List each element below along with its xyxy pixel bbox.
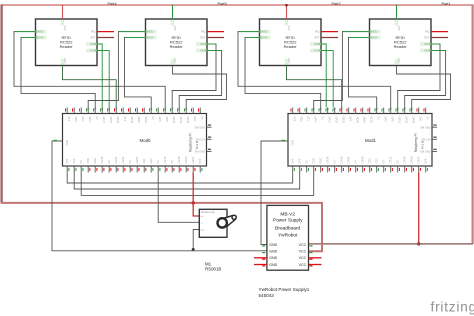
svg-text:MOSI: MOSI <box>130 117 134 124</box>
svg-text:3V3: 3V3 <box>123 117 127 122</box>
svg-text:Mod0: Mod0 <box>140 138 152 143</box>
pin CE0 bottom Mod1 <box>369 166 371 173</box>
power supply MB-V2 YwRobot <box>254 205 322 270</box>
pin MOSI top Mod1 <box>355 108 357 114</box>
svg-text:5V0: 5V0 <box>65 158 69 163</box>
svg-text:5V0: 5V0 <box>198 158 202 163</box>
svg-text:0V: 0V <box>333 160 337 163</box>
svg-text:SM C14: SM C14 <box>196 138 206 142</box>
svg-text:GP16: GP16 <box>403 156 407 163</box>
pin 5V0 top Mod1 <box>418 108 420 114</box>
pin 3V3 top Mod1 <box>292 108 294 114</box>
svg-text:Reader: Reader <box>60 44 74 49</box>
pin SCL top Mod1 <box>306 108 308 114</box>
svg-text:VCC: VCC <box>299 243 307 247</box>
svg-text:GND: GND <box>397 58 400 64</box>
svg-text:0V: 0V <box>305 160 309 163</box>
endpoint markers right half <box>260 31 262 33</box>
pin GP17 top Mod1 <box>327 108 329 114</box>
wire SDA glow A right <box>321 43 326 45</box>
pin GP6 top Mod0 <box>164 108 166 114</box>
wire MOSI reader A left <box>21 38 95 108</box>
pin GP18 bottom Mod1 <box>327 166 329 173</box>
wire MOSI glow A right <box>246 37 260 39</box>
pin GP18 bottom Mod0 <box>101 166 103 173</box>
pin SM right Mod1 <box>432 151 437 153</box>
pin SDA top Mod1 <box>299 108 301 114</box>
pin 0V bottom Mod0 <box>108 166 110 173</box>
svg-text:3V3: 3V3 <box>293 117 297 122</box>
svg-text:RXD: RXD <box>319 158 323 164</box>
svg-text:Breadboard: Breadboard <box>275 225 300 231</box>
svg-text:Reader: Reader <box>170 44 184 49</box>
svg-text:Power Supply: Power Supply <box>273 217 303 223</box>
Raspberry Pi module Mod0 <box>63 114 207 167</box>
svg-text:VCC: VCC <box>299 250 307 254</box>
pin 3V3 top Mod0 <box>122 108 124 114</box>
wire 5V Mod0 to servo sig <box>193 173 199 217</box>
pin 0V bottom Mod1 <box>306 166 308 173</box>
svg-text:GP26: GP26 <box>412 117 416 124</box>
svg-text:SCK: SCK <box>424 49 430 53</box>
wire SDA reader A left <box>97 44 102 108</box>
svg-text:GND: GND <box>269 263 277 267</box>
wire red left rail <box>0 4 2 203</box>
svg-text:GND: GND <box>269 243 277 247</box>
svg-text:0V: 0V <box>107 160 111 163</box>
svg-text:0V: 0V <box>426 117 430 120</box>
svg-text:GP18: GP18 <box>100 156 104 163</box>
svg-text:VCC: VCC <box>299 263 307 267</box>
wire SDA glow B left <box>207 43 216 45</box>
pin GP21 bottom Mod1 <box>418 166 420 173</box>
svg-text:GP18: GP18 <box>326 156 330 163</box>
svg-text:IRQ: IRQ <box>201 30 206 34</box>
svg-text:GP4: GP4 <box>314 117 318 123</box>
pin 5V0 bottom Mod1 <box>425 166 427 173</box>
pin SM right Mod1 <box>432 126 437 128</box>
junction top bus box3 <box>285 4 288 7</box>
pin GP6 top Mod1 <box>390 108 392 114</box>
svg-text:GP5: GP5 <box>384 117 388 123</box>
svg-text:0V: 0V <box>200 117 204 120</box>
wire 3.3V Part1 <box>396 5 398 19</box>
svg-text:GP22: GP22 <box>342 117 346 124</box>
pin GP20 bottom Mod1 <box>411 166 413 173</box>
wire red right rail <box>472 4 474 244</box>
svg-text:Reader: Reader <box>284 44 298 49</box>
pin SCL top Mod0 <box>80 108 82 114</box>
pin 0V top Mod1 <box>320 108 322 114</box>
svg-text:Raspberry Pi: Raspberry Pi <box>414 133 418 152</box>
svg-text:GP27: GP27 <box>335 117 339 124</box>
svg-text:SDA: SDA <box>424 42 430 46</box>
svg-text:GP17: GP17 <box>328 117 332 124</box>
svg-text:RS001B: RS001B <box>205 266 221 271</box>
wire MOSI glow B right <box>349 37 370 39</box>
wire MOSI reader B left <box>125 38 152 108</box>
svg-text:SM C14: SM C14 <box>421 138 431 142</box>
svg-text:SCL: SCL <box>307 117 311 123</box>
pin GP25 bottom Mod1 <box>362 166 364 173</box>
svg-text:GP19: GP19 <box>405 117 409 124</box>
wire bus B Mod0-Mod1 <box>74 173 300 190</box>
pin TXD bottom Mod0 <box>87 166 89 173</box>
svg-text:MISO: MISO <box>371 30 378 34</box>
wire GND reader B left <box>173 66 227 108</box>
svg-text:0V: 0V <box>95 117 99 120</box>
svg-text:5V0: 5V0 <box>291 158 295 163</box>
svg-text:SDA: SDA <box>200 42 206 46</box>
pin 5V0 bottom Mod1 <box>292 166 294 173</box>
svg-text:MISO: MISO <box>37 30 44 34</box>
svg-text:GP22: GP22 <box>116 117 120 124</box>
pin 5V0 bottom Mod0 <box>199 166 201 173</box>
pin SM right Mod0 <box>207 138 212 140</box>
svg-text:RST: RST <box>424 36 430 40</box>
svg-text:Part5: Part5 <box>218 2 227 6</box>
svg-text:GP13: GP13 <box>398 117 402 124</box>
svg-text:TXD: TXD <box>86 158 90 163</box>
svg-text:CE1: CE1 <box>149 158 153 164</box>
pin GP16 bottom Mod0 <box>178 166 180 173</box>
pin GP27 top Mod1 <box>334 108 336 114</box>
pin GP19 top Mod0 <box>178 108 180 114</box>
wire IRQ stub reader B right <box>431 31 448 33</box>
pin GP4 top Mod0 <box>87 108 89 114</box>
svg-text:SDA: SDA <box>74 117 78 123</box>
RFID reader Part2 <box>260 19 322 66</box>
svg-text:Mod1: Mod1 <box>365 138 377 143</box>
pin MOSI top Mod0 <box>129 108 131 114</box>
wire MISO glow B left <box>119 31 146 33</box>
svg-text:IRQ: IRQ <box>91 30 96 34</box>
svg-text:SM GND: SM GND <box>195 150 206 154</box>
svg-text:3V3: 3V3 <box>349 117 353 122</box>
svg-text:GP13: GP13 <box>172 117 176 124</box>
wire SCK reader A right <box>321 51 333 108</box>
svg-text:Part1: Part1 <box>442 2 451 6</box>
wire 3.3V Part5 <box>172 5 174 19</box>
wire SCK glow B left <box>207 50 221 52</box>
svg-text:GP20: GP20 <box>410 156 414 163</box>
svg-text:GND: GND <box>63 58 66 64</box>
pin GP27 top Mod0 <box>108 108 110 114</box>
svg-text:0V: 0V <box>321 117 325 120</box>
wire MISO reader B left <box>88 32 145 108</box>
svg-text:5V0: 5V0 <box>424 158 428 163</box>
svg-text:CE0: CE0 <box>368 158 372 164</box>
svg-text:MOSI: MOSI <box>371 36 378 40</box>
wire SCK glow A left <box>97 50 109 52</box>
pin GP24 bottom Mod0 <box>122 166 124 173</box>
svg-text:GP6: GP6 <box>165 117 169 123</box>
pin GP13 top Mod0 <box>171 108 173 114</box>
svg-text:SGServo fig: SGServo fig <box>201 211 215 214</box>
svg-text:5V0: 5V0 <box>72 158 76 163</box>
wire Mod0 to servo vcc <box>158 173 199 223</box>
wire servo gnd <box>193 230 199 251</box>
svg-text:Part2: Part2 <box>332 2 341 6</box>
wire red mid bus <box>1 203 322 251</box>
svg-text:GP5: GP5 <box>158 117 162 123</box>
wire red VCC line <box>309 243 474 245</box>
wire bus A Mod0-Mod1 <box>67 173 293 184</box>
svg-text:0V: 0V <box>377 117 381 120</box>
svg-text:MISO: MISO <box>363 117 367 124</box>
svg-text:0V: 0V <box>170 160 174 163</box>
svg-text:pw: pw <box>201 216 204 218</box>
svg-text:Raspberry Pi: Raspberry Pi <box>189 133 193 152</box>
wire MOSI reader A right <box>245 38 321 108</box>
pin 0V bottom Mod0 <box>80 166 82 173</box>
svg-text:3.3V: 3.3V <box>287 26 290 31</box>
servo horn <box>218 215 237 228</box>
wire RST stub reader A left <box>97 37 114 39</box>
junction 5V mid bus <box>192 201 195 204</box>
pin GP23 bottom Mod1 <box>341 166 343 173</box>
pin 0V top Mod1 <box>376 108 378 114</box>
pin GP5 top Mod1 <box>383 108 385 114</box>
pin GP12 bottom Mod1 <box>390 166 392 173</box>
wire MOSI glow B left <box>125 37 146 39</box>
svg-text:MB-V2: MB-V2 <box>280 212 295 218</box>
Raspberry Pi module Mod1 <box>288 114 432 167</box>
wire SCK glow A right <box>321 50 333 52</box>
RFID reader Part5 <box>146 19 208 66</box>
svg-text:YwRobot: YwRobot <box>278 232 298 238</box>
pin GP22 top Mod1 <box>341 108 343 114</box>
wire red top 3V3 bus <box>2 5 473 6</box>
wire GND reader A right <box>287 66 342 108</box>
svg-text:SDA: SDA <box>314 42 320 46</box>
pin 5V0 top Mod0 <box>192 108 194 114</box>
svg-text:3.3V: 3.3V <box>63 26 66 31</box>
wire RST stub reader A right <box>321 37 338 39</box>
wire SCK reader A left <box>97 51 109 108</box>
svg-text:SM GND: SM GND <box>195 125 206 129</box>
pin 0V bottom Mod0 <box>157 166 159 173</box>
pin SDA top Mod0 <box>73 108 75 114</box>
pin 0V top Mod0 <box>94 108 96 114</box>
svg-text:SCL: SCL <box>81 117 85 123</box>
svg-text:MISO: MISO <box>147 30 154 34</box>
svg-text:0V: 0V <box>79 160 83 163</box>
svg-text:GND: GND <box>291 140 295 146</box>
pin GP22 top Mod0 <box>115 108 117 114</box>
svg-text:GP21: GP21 <box>191 156 195 163</box>
junction VCC line <box>417 242 420 245</box>
wire IRQ stub reader B left <box>207 31 224 33</box>
svg-text:GND: GND <box>287 58 290 64</box>
svg-text:SM GND: SM GND <box>420 150 431 154</box>
svg-text:0V: 0V <box>396 160 400 163</box>
pin SM right Mod0 <box>207 151 212 153</box>
wire SDA reader B right <box>398 44 440 108</box>
svg-text:MISO: MISO <box>137 117 141 124</box>
pin 0V bottom Mod0 <box>129 166 131 173</box>
pin 0V bottom Mod1 <box>397 166 399 173</box>
svg-text:CE1: CE1 <box>375 158 379 164</box>
svg-text:VCC: VCC <box>299 256 307 260</box>
svg-text:MOSI: MOSI <box>147 36 154 40</box>
pin 3V3 top Mod0 <box>66 108 68 114</box>
svg-text:MOSI: MOSI <box>37 36 44 40</box>
svg-text:545043: 545043 <box>259 293 275 298</box>
svg-text:IRQ: IRQ <box>315 30 320 34</box>
pin 5V0 bottom Mod0 <box>66 166 68 173</box>
wire SCK reader B right <box>405 51 446 108</box>
servo M1 RS001B <box>199 209 227 237</box>
wire RST stub reader B right <box>431 37 448 39</box>
pin GP17 top Mod0 <box>101 108 103 114</box>
pin GP23 bottom Mod0 <box>115 166 117 173</box>
svg-text:GP17: GP17 <box>102 117 106 124</box>
svg-text:0V: 0V <box>354 160 358 163</box>
RFID reader Part1 <box>370 19 432 66</box>
svg-text:GP6: GP6 <box>391 117 395 123</box>
svg-text:SCLK: SCLK <box>370 117 374 124</box>
wire 5V Mod1 to VCC line <box>418 173 420 244</box>
pin CE1 bottom Mod1 <box>376 166 378 173</box>
wire MISO glow A right <box>239 31 260 33</box>
pin CE1 bottom Mod0 <box>150 166 152 173</box>
svg-text:RST: RST <box>314 36 320 40</box>
wire SDA reader A right <box>321 44 326 108</box>
svg-text:Pi 2 B: Pi 2 B <box>421 141 425 149</box>
wire 3.3V Part2 <box>286 5 288 19</box>
svg-text:IRQ: IRQ <box>425 30 430 34</box>
pin 5V0 bottom Mod0 <box>73 166 75 173</box>
svg-text:GP25: GP25 <box>361 156 365 163</box>
wire GND rail Mod0 to supply <box>52 141 267 251</box>
wire SCK glow B right <box>431 50 445 52</box>
svg-text:fritzing: fritzing <box>431 300 474 315</box>
wire MISO glow B right <box>343 31 370 33</box>
svg-text:MOSI: MOSI <box>356 117 360 124</box>
svg-text:GP12: GP12 <box>163 156 167 163</box>
svg-text:TXD: TXD <box>312 158 316 163</box>
svg-text:5V0: 5V0 <box>193 117 197 122</box>
wire 3.3V Part4 <box>62 5 64 19</box>
svg-text:SCK: SCK <box>90 49 96 53</box>
svg-text:GND: GND <box>269 256 277 260</box>
pin TXD bottom Mod1 <box>313 166 315 173</box>
svg-text:Part4: Part4 <box>108 2 117 6</box>
wire GND reader A left <box>63 66 117 108</box>
svg-text:5V0: 5V0 <box>419 117 423 122</box>
svg-text:SCK: SCK <box>200 49 206 53</box>
pin RXD bottom Mod0 <box>94 166 96 173</box>
pin GP25 bottom Mod0 <box>136 166 138 173</box>
pin 3V3 top Mod1 <box>348 108 350 114</box>
svg-text:GP16: GP16 <box>177 156 181 163</box>
svg-text:GP24: GP24 <box>347 156 351 163</box>
endpoint markers left half <box>36 31 38 33</box>
wire MISO reader A right <box>238 32 391 108</box>
svg-text:Reader: Reader <box>394 44 408 49</box>
pin GP16 bottom Mod1 <box>404 166 406 173</box>
svg-text:SCLK: SCLK <box>144 117 148 124</box>
wire IRQ stub reader A right <box>321 31 338 33</box>
pin GP26 top Mod0 <box>185 108 187 114</box>
pin SCLK top Mod1 <box>369 108 371 114</box>
pin MISO top Mod0 <box>136 108 138 114</box>
pin GP24 bottom Mod1 <box>348 166 350 173</box>
svg-text:0V: 0V <box>151 117 155 120</box>
svg-text:RST: RST <box>90 36 96 40</box>
pin 5V0 bottom Mod1 <box>299 166 301 173</box>
svg-text:3.3V: 3.3V <box>397 26 400 31</box>
pin 0V bottom Mod1 <box>355 166 357 173</box>
wire SDA reader B left <box>172 44 216 108</box>
svg-text:GP19: GP19 <box>179 117 183 124</box>
svg-text:GP21: GP21 <box>417 156 421 163</box>
pin 0V bottom Mod1 <box>383 166 385 173</box>
wire MOSI reader B right <box>349 38 377 108</box>
svg-text:YwRobot Power Supply1: YwRobot Power Supply1 <box>259 287 310 292</box>
svg-text:GP24: GP24 <box>121 156 125 163</box>
pin 0V bottom Mod1 <box>334 166 336 173</box>
pin GP13 top Mod1 <box>397 108 399 114</box>
pin RXD bottom Mod1 <box>320 166 322 173</box>
svg-text:3V3: 3V3 <box>67 117 71 122</box>
svg-text:SDA: SDA <box>90 42 96 46</box>
wire MOSI glow A left <box>22 37 36 39</box>
svg-text:GND: GND <box>173 58 176 64</box>
pin SM right Mod0 <box>207 126 212 128</box>
svg-text:SCK: SCK <box>314 49 320 53</box>
svg-text:0V: 0V <box>156 160 160 163</box>
svg-text:0V: 0V <box>128 160 132 163</box>
svg-text:GP12: GP12 <box>389 156 393 163</box>
RFID reader Part4 <box>36 19 98 66</box>
svg-text:RXD: RXD <box>93 158 97 164</box>
wire bus C Mod0-Mod1 <box>81 173 314 196</box>
svg-text:SDA: SDA <box>300 117 304 123</box>
junction gnd line <box>192 248 195 251</box>
pin GP12 bottom Mod0 <box>164 166 166 173</box>
pin SM right Mod1 <box>432 138 437 140</box>
svg-text:GND: GND <box>269 250 277 254</box>
pin 0V top Mod0 <box>199 108 201 114</box>
wire SCK reader B left <box>179 51 221 108</box>
svg-text:CE0: CE0 <box>142 158 146 164</box>
wire SDA glow B right <box>431 43 440 45</box>
svg-text:GND: GND <box>65 140 69 146</box>
svg-text:GP4: GP4 <box>88 117 92 123</box>
pin 0V top Mod0 <box>150 108 152 114</box>
wire MISO reader B right <box>314 32 370 108</box>
svg-text:MISO: MISO <box>261 30 268 34</box>
svg-text:0V: 0V <box>382 160 386 163</box>
svg-text:5V0: 5V0 <box>298 158 302 163</box>
pin GP4 top Mod1 <box>313 108 315 114</box>
svg-text:3.3V: 3.3V <box>173 26 176 31</box>
svg-text:RST: RST <box>200 36 206 40</box>
svg-text:SM GND: SM GND <box>420 125 431 129</box>
wire RST stub reader B left <box>207 37 224 39</box>
pin MISO top Mod1 <box>362 108 364 114</box>
svg-text:GP20: GP20 <box>184 156 188 163</box>
wire IRQ stub reader A left <box>97 31 114 33</box>
pin CE0 bottom Mod0 <box>143 166 145 173</box>
wire SDA glow A left <box>97 43 102 45</box>
svg-text:GP26: GP26 <box>186 117 190 124</box>
wire GND Mod1 to supply <box>261 141 288 245</box>
pin SCLK top Mod0 <box>143 108 145 114</box>
svg-text:GP23: GP23 <box>114 156 118 163</box>
